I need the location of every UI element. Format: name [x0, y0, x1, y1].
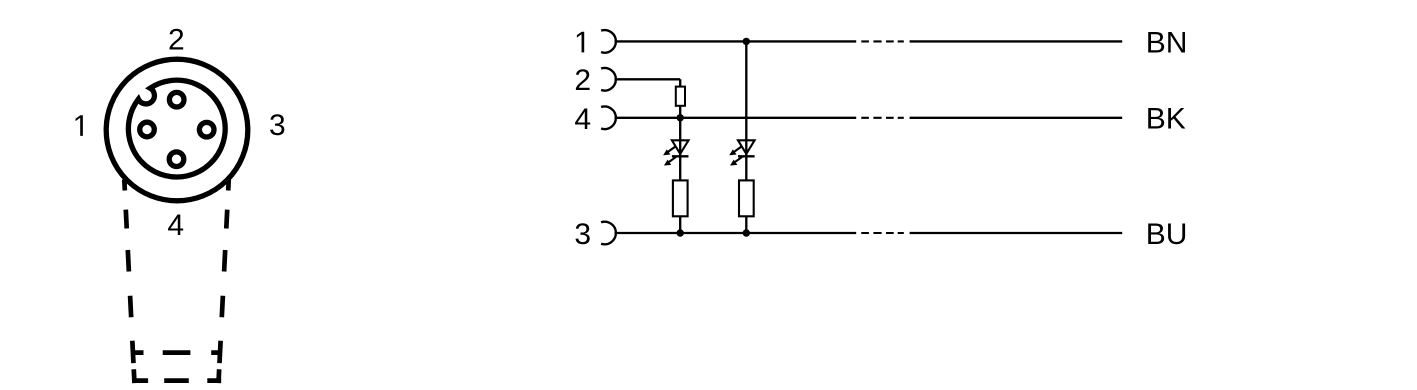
wire line 3 right solid to BU: [910, 232, 1123, 234]
branch 1 vertical wire: [679, 79, 681, 233]
LED D1 triangle: [672, 140, 689, 154]
junction node line3/branch1: [677, 229, 684, 236]
svg-text:2: 2: [168, 24, 185, 57]
svg-text:BK: BK: [1146, 102, 1186, 135]
pin 2 hole (top): [169, 92, 184, 107]
wire line 3 left solid: [615, 232, 857, 234]
junction node line1/branch2: [743, 38, 750, 45]
wire line 4 dashed middle: [861, 117, 904, 119]
LED D2 triangle: [738, 140, 755, 154]
resistor R3 small: [676, 87, 685, 106]
resistor R2: [739, 180, 754, 216]
svg-text:3: 3: [269, 109, 286, 142]
svg-text:4: 4: [167, 209, 184, 242]
cable outline right dashed line: [218, 180, 228, 384]
wire line 2: [615, 78, 681, 80]
junction node line4/branch1: [677, 114, 684, 121]
svg-text:BN: BN: [1146, 27, 1188, 60]
cable end rectangle bottom dashed edge: [134, 378, 222, 383]
svg-text:BU: BU: [1146, 218, 1188, 251]
wire line 4 left solid: [615, 117, 857, 119]
contact socket arc pin 4: [601, 107, 616, 130]
label pin 1: [76, 115, 83, 136]
wire line 1 left solid: [615, 40, 857, 42]
LED D2 emission arrow a: [730, 146, 742, 155]
svg-text:2: 2: [574, 64, 591, 97]
svg-text:3: 3: [574, 218, 591, 251]
LED D2 emission arrow b: [731, 157, 743, 166]
connector J1 outer ring: [106, 59, 248, 201]
connector J1 inner ring with keyway notch: [128, 80, 225, 177]
wire line 3 dashed middle: [861, 232, 904, 234]
resistor R1: [673, 180, 688, 216]
wire line 1 right solid to BN: [910, 40, 1123, 42]
branch 2 vertical wire: [745, 41, 747, 233]
cable end rectangle top dashed edge: [133, 350, 221, 355]
svg-text:4: 4: [574, 103, 591, 136]
schematic pin label 1: [577, 32, 584, 53]
cable outline left dashed line: [124, 180, 134, 384]
wire line 1 dashed middle: [861, 40, 904, 42]
pin 4 hole (bottom): [169, 152, 184, 167]
LED D1 emission arrow b: [665, 157, 677, 166]
contact socket arc pin 3: [601, 222, 616, 245]
contact socket arc pin 2: [601, 68, 616, 91]
LED D2 cathode bar: [738, 155, 755, 157]
LED D1 cathode bar: [672, 155, 689, 157]
junction node line3/branch2: [743, 229, 750, 236]
wire line 4 right solid to BK: [910, 117, 1123, 119]
pin 3 hole (right): [199, 122, 214, 137]
pin 1 hole (left): [140, 122, 155, 137]
contact socket arc pin 1: [601, 30, 616, 53]
LED D1 emission arrow a: [664, 146, 676, 155]
